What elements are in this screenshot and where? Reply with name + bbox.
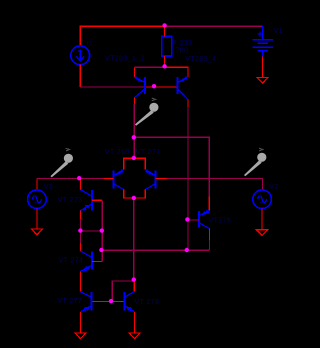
transistor mirror left VT283_1 xyxy=(135,67,146,104)
wire right rail (maroon) xyxy=(167,179,263,190)
wire bridge bottom down (maroon) xyxy=(133,198,135,280)
svg-text:V1: V1 xyxy=(274,28,283,35)
wire mirror-left collector to bridge (maroon) xyxy=(133,104,135,158)
transistor bridge left VT269 xyxy=(104,170,124,190)
svg-text:VT 271: VT 271 xyxy=(136,149,161,156)
svg-text:VT 273: VT 273 xyxy=(58,197,83,204)
node dot VT276 base xyxy=(185,217,189,221)
svg-text:VT 278: VT 278 xyxy=(134,299,159,306)
wire VT276 emitter to rail250 (maroon) xyxy=(209,240,211,250)
wire mirror-right collector down (maroon) xyxy=(187,107,189,250)
wire VT276 base tap (maroon) xyxy=(188,219,193,221)
probe right xyxy=(244,148,266,176)
wire battery to ground (red) xyxy=(262,57,264,78)
node dot bridge top xyxy=(132,156,136,160)
wire bottom mirror bases (red) xyxy=(92,300,125,302)
svg-text:VT 277: VT 277 xyxy=(57,298,82,305)
wire mirror base rail right (red) xyxy=(145,86,178,88)
node dot bridge bottom xyxy=(132,196,136,200)
transistor VT276 xyxy=(193,197,210,241)
node dot rail231 left xyxy=(78,228,82,232)
node dot bottom mirror top xyxy=(132,277,136,281)
wire top rail right (maroon) xyxy=(165,25,263,27)
transistor VT274 xyxy=(80,231,102,292)
svg-text:R 233: R 233 xyxy=(172,40,193,47)
transistor VT273 xyxy=(80,179,102,219)
node dot rail231 right xyxy=(100,228,104,232)
wire current source bottom (red) xyxy=(79,65,81,87)
resistor R233 xyxy=(162,26,172,67)
ground V2 xyxy=(257,230,268,236)
svg-text:700: 700 xyxy=(176,47,189,54)
node dot emitter rail xyxy=(162,64,166,68)
wire bottom mirror top elbow (maroon) xyxy=(112,281,134,301)
AC source V3 xyxy=(28,179,47,229)
transistor VT277 xyxy=(80,292,91,333)
wire mirror base rail (maroon) xyxy=(80,86,145,88)
wire top rail left (red) xyxy=(80,26,164,46)
wire VT278 collector (red) xyxy=(133,280,135,291)
svg-text:VT276: VT276 xyxy=(209,218,232,225)
transistor mirror right VT283_4 xyxy=(165,67,188,107)
svg-text:V3: V3 xyxy=(44,184,53,191)
wire bridge bottom rect (red) xyxy=(124,190,146,198)
svg-text:VT283_1_2: VT283_1_2 xyxy=(105,55,145,62)
AC source V2 xyxy=(253,190,272,230)
svg-text:VT283_4: VT283_4 xyxy=(185,56,216,63)
node dot bridge tap xyxy=(132,135,136,139)
node dot mirror bases xyxy=(152,84,156,88)
node dot top rail resistor xyxy=(162,23,166,27)
wire left rail (maroon) xyxy=(37,178,103,180)
current source I1 xyxy=(71,46,90,65)
svg-text:VT 274: VT 274 xyxy=(59,257,84,264)
svg-text:V2: V2 xyxy=(269,184,278,191)
ground VT277 xyxy=(75,333,86,339)
transistor bridge right VT271 xyxy=(145,170,166,190)
node dot rail250 left xyxy=(99,248,103,252)
svg-text:VT 269: VT 269 xyxy=(105,149,130,156)
ground VT278 xyxy=(129,333,140,339)
probe middle xyxy=(135,98,159,126)
node dot bottom mirror bases xyxy=(109,299,113,303)
wire rail y137 to VT276 collector (maroon) xyxy=(134,137,210,196)
ground battery xyxy=(257,77,268,83)
wire emitter rail (maroon) xyxy=(135,66,188,68)
wire base chain vertical (maroon) xyxy=(101,200,103,261)
node dot rail250 right xyxy=(185,248,189,252)
node dot left rail xyxy=(77,176,81,180)
wire VT273 emitter to rail231 (maroon) xyxy=(79,219,81,231)
transistor VT278 xyxy=(125,292,135,333)
svg-text:I1: I1 xyxy=(87,41,94,48)
probe left xyxy=(51,148,74,177)
ground V3 xyxy=(31,229,42,235)
wire bridge top rect (red) xyxy=(124,158,146,169)
battery V1 xyxy=(252,26,273,56)
wire rail y231 (maroon) xyxy=(80,230,102,232)
wire rail y250 (maroon) xyxy=(102,249,210,251)
